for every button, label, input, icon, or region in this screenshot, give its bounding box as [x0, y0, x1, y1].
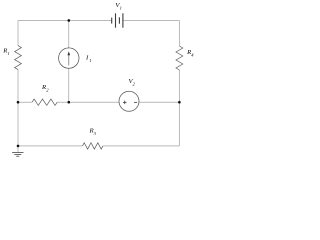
svg-text:2: 2: [46, 87, 49, 92]
svg-text:3: 3: [94, 131, 97, 136]
svg-text:1: 1: [8, 51, 10, 56]
svg-text:4: 4: [191, 53, 194, 58]
svg-text:1: 1: [89, 58, 91, 63]
svg-text:2: 2: [133, 82, 136, 87]
svg-text:1: 1: [120, 5, 122, 10]
